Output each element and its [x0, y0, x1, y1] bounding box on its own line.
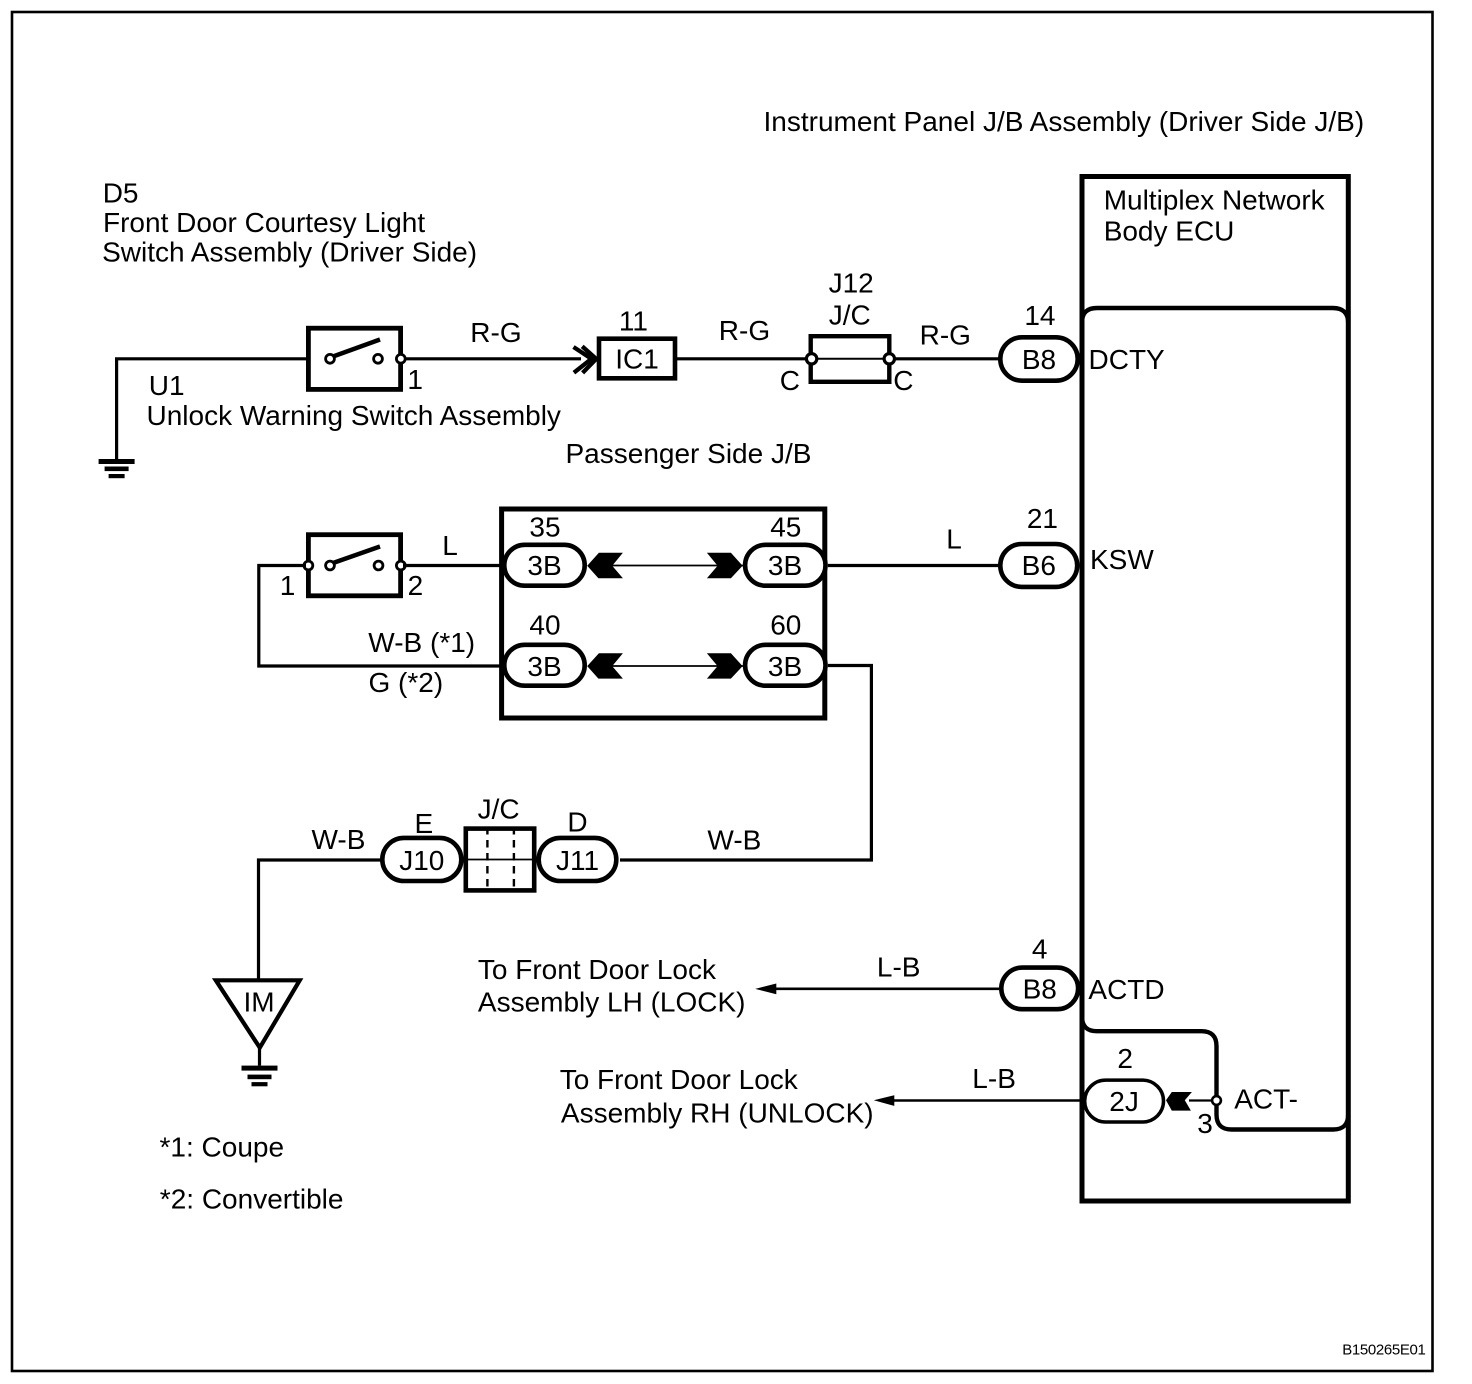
svg-text:1: 1 [280, 570, 296, 601]
connector 3B pin 60 [745, 645, 825, 686]
svg-text:B150265E01: B150265E01 [1342, 1342, 1425, 1359]
arrowhead left (row2) [587, 653, 623, 678]
svg-text:*2: Convertible: *2: Convertible [160, 1183, 344, 1214]
ground (driver courtesy switch) [99, 459, 135, 478]
wire: B8(4) to front door lock LH with arrow [774, 987, 999, 990]
svg-text:D5: D5 [103, 178, 139, 209]
arrowhead into 2J [1166, 1092, 1192, 1111]
passenger courtesy switch [304, 535, 405, 596]
wire: ground to courtesy switch [117, 359, 306, 459]
connector 3B pin 45 [745, 545, 825, 586]
passenger J/B box [502, 509, 825, 718]
svg-text:Passenger Side J/B: Passenger Side J/B [566, 438, 812, 469]
connector J10 pin E [382, 838, 461, 881]
wire: J10 left then down to IM [259, 860, 382, 981]
label To Front Door Lock Assembly RH (UNLOCK) [560, 1064, 874, 1128]
svg-text:14: 14 [1024, 300, 1055, 331]
svg-text:11: 11 [619, 305, 648, 336]
svg-text:U1: U1 [149, 370, 185, 401]
connector 3B pin 40 [504, 645, 584, 686]
svg-text:IM: IM [244, 986, 275, 1017]
svg-text:G (*2): G (*2) [369, 667, 444, 698]
svg-text:L-B: L-B [877, 952, 921, 983]
wire: J12 to B8 [894, 357, 1000, 360]
svg-text:2: 2 [1117, 1043, 1133, 1074]
svg-text:DCTY: DCTY [1089, 344, 1166, 375]
connector J11 pin D [539, 838, 617, 881]
junction connector J12 J/C [806, 336, 894, 382]
svg-text:J11: J11 [556, 845, 599, 876]
svg-text:3B: 3B [768, 550, 802, 581]
node 3 (ACT-) [1212, 1096, 1221, 1105]
svg-text:J12: J12 [829, 268, 874, 299]
splice arrows into IC1 [574, 346, 597, 373]
svg-text:ACT-: ACT- [1234, 1084, 1298, 1115]
wire: passenger switch pin2 to 3B(35) [403, 564, 502, 567]
svg-text:3B: 3B [527, 550, 561, 581]
svg-text:W-B: W-B [312, 824, 366, 855]
label U1 Unlock Warning Switch Assembly [147, 370, 561, 431]
svg-text:21: 21 [1027, 503, 1058, 534]
svg-text:J/C: J/C [478, 793, 520, 824]
ECU box: Multiplex Network Body ECU [1082, 177, 1348, 1202]
courtesy switch D5 (driver side) [308, 328, 405, 389]
splice line 35-45 [589, 565, 744, 567]
svg-text:B8: B8 [1022, 344, 1056, 375]
svg-text:L-B: L-B [972, 1063, 1016, 1094]
wire: IC1 to J12 [677, 357, 811, 360]
connector 3B pin 35 [504, 545, 584, 586]
svg-text:Instrument Panel J/B Assembly: Instrument Panel J/B Assembly (Driver Si… [764, 106, 1365, 137]
ground (IM) [242, 1066, 278, 1087]
wire: node 3 to arrow [1189, 1099, 1214, 1101]
svg-text:KSW: KSW [1090, 544, 1154, 575]
svg-text:To Front Door Lock: To Front Door Lock [560, 1064, 799, 1095]
svg-text:40: 40 [529, 610, 560, 641]
svg-text:Unlock Warning Switch Assembly: Unlock Warning Switch Assembly [147, 400, 561, 431]
svg-text:Multiplex Network: Multiplex Network [1104, 185, 1326, 216]
svg-text:Switch Assembly (Driver Side): Switch Assembly (Driver Side) [102, 237, 477, 268]
wire: 45 to B6 [828, 564, 999, 567]
ground IM triangle [216, 980, 300, 1065]
wire: 60 right, down, left to J11 [620, 666, 871, 861]
svg-text:C: C [893, 365, 913, 396]
svg-text:ACTD: ACTD [1088, 974, 1164, 1005]
label To Front Door Lock Assembly LH (LOCK) [478, 954, 746, 1018]
connector B8 pin 14 (DCTY) [1000, 337, 1077, 380]
ECU internal boundary (rounded) [1082, 308, 1348, 1130]
svg-text:J/C: J/C [829, 300, 871, 331]
wire: 2J to front door lock RH with arrow [894, 1099, 1084, 1102]
connector B8 pin 4 (ACTD) [1001, 968, 1078, 1010]
svg-text:D: D [567, 807, 587, 838]
label D5 Front Door Courtesy Light Switch Assembly (Driver Side) [102, 178, 477, 268]
svg-text:35: 35 [529, 511, 560, 542]
wire: switch to IC1 [403, 357, 581, 360]
svg-text:Body ECU: Body ECU [1104, 215, 1235, 246]
svg-text:W-B: W-B [707, 824, 761, 855]
svg-text:3B: 3B [768, 651, 802, 682]
arrowhead left (row1) [587, 553, 623, 578]
svg-text:45: 45 [770, 511, 801, 542]
svg-text:1: 1 [407, 364, 423, 395]
junction connector J/C (between J10 and J11) [466, 827, 534, 892]
svg-text:IC1: IC1 [615, 344, 659, 375]
connector B6 pin 21 (KSW) [1000, 544, 1077, 587]
svg-text:2: 2 [408, 570, 424, 601]
connector IC1 [599, 339, 675, 379]
arrowhead right (row1) [707, 553, 743, 578]
connector 2J pin 2 [1085, 1080, 1164, 1122]
svg-text:Front Door Courtesy Light: Front Door Courtesy Light [103, 207, 425, 238]
svg-text:E: E [414, 808, 433, 839]
svg-text:C: C [780, 365, 800, 396]
arrowhead to LH lock [755, 984, 776, 995]
splice line 40-60 [589, 665, 744, 667]
svg-text:Assembly LH (LOCK): Assembly LH (LOCK) [478, 987, 746, 1018]
svg-text:L: L [442, 530, 458, 561]
svg-text:R-G: R-G [719, 315, 770, 346]
svg-text:60: 60 [770, 610, 801, 641]
arrowhead right (row2) [707, 653, 743, 678]
svg-text:4: 4 [1032, 934, 1048, 965]
svg-text:*1: Coupe: *1: Coupe [160, 1131, 285, 1162]
svg-text:B6: B6 [1022, 550, 1056, 581]
arrowhead to RH lock [874, 1095, 895, 1106]
svg-text:J10: J10 [399, 845, 444, 876]
svg-text:To Front Door Lock: To Front Door Lock [478, 954, 717, 985]
svg-text:R-G: R-G [470, 317, 521, 348]
wire: passenger switch pin1 down and to 3B(40) [259, 566, 502, 667]
svg-text:2J: 2J [1109, 1086, 1139, 1117]
svg-text:3: 3 [1197, 1108, 1213, 1139]
svg-text:Assembly RH (UNLOCK): Assembly RH (UNLOCK) [561, 1098, 874, 1129]
svg-text:3B: 3B [527, 651, 561, 682]
svg-text:L: L [946, 524, 962, 555]
svg-text:W-B (*1): W-B (*1) [368, 627, 475, 658]
svg-text:R-G: R-G [920, 320, 971, 351]
svg-text:B8: B8 [1023, 974, 1057, 1005]
